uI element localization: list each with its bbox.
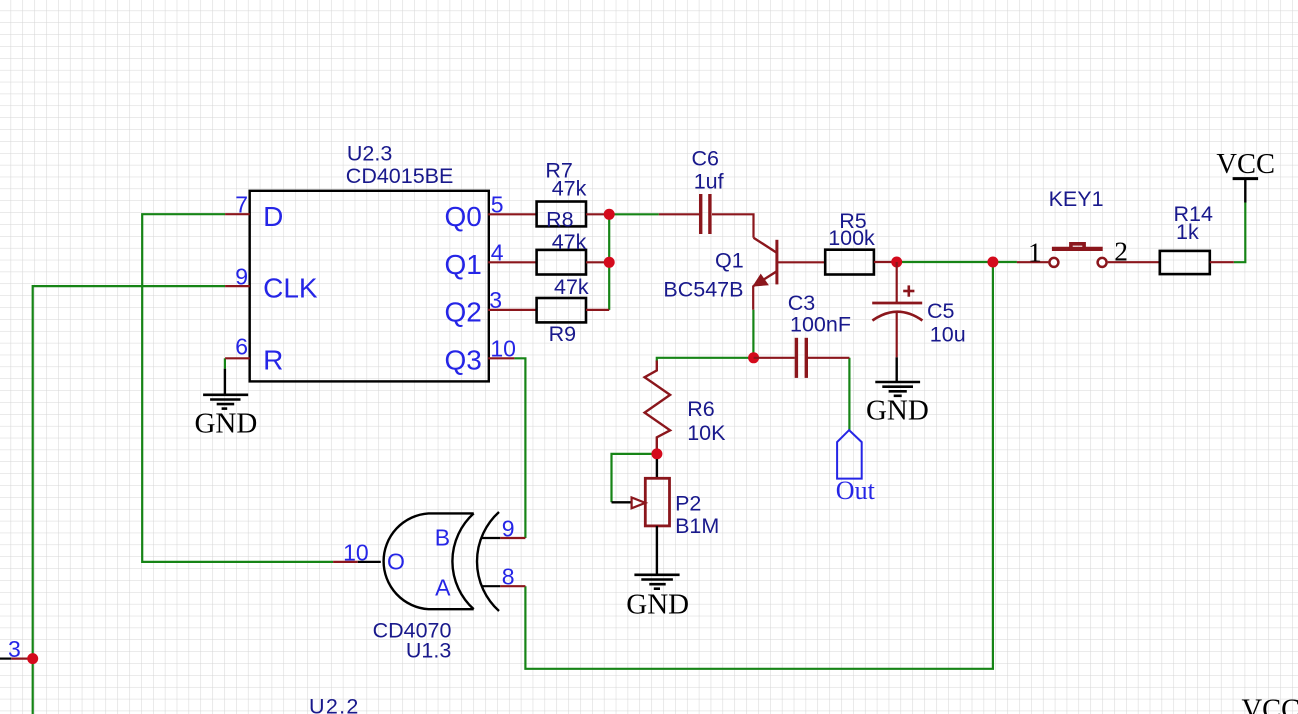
label R8 bbox=[546, 207, 574, 231]
label R14 bbox=[1174, 202, 1213, 226]
svg-text:4: 4 bbox=[491, 240, 504, 266]
pin name CLK bbox=[263, 273, 318, 304]
svg-text:47k: 47k bbox=[552, 230, 587, 254]
svg-text:1uf: 1uf bbox=[694, 169, 724, 193]
pin number 6 bbox=[235, 334, 248, 360]
pin 4 stub Q1 bbox=[488, 261, 536, 263]
label VCC text bbox=[1216, 149, 1275, 180]
XOR input pin 8 bbox=[482, 585, 526, 587]
pin number 7 bbox=[235, 192, 248, 218]
pin number 4 bbox=[491, 240, 504, 266]
pin name O bbox=[387, 549, 405, 575]
svg-text:GND: GND bbox=[194, 408, 257, 440]
resistor R14 box bbox=[1160, 251, 1210, 274]
svg-text:R8: R8 bbox=[546, 207, 574, 231]
junction node emitter-C3-R6 bbox=[748, 352, 759, 363]
svg-text:6: 6 bbox=[235, 334, 248, 360]
wire base row R5 to KEY1 bbox=[897, 261, 1017, 263]
XOR input pin 9 bbox=[482, 537, 526, 539]
svg-text:R9: R9 bbox=[549, 322, 576, 346]
svg-text:5: 5 bbox=[491, 192, 504, 218]
label 47k (R9) bbox=[554, 275, 589, 299]
wire VCC drop to R14 bbox=[1234, 203, 1246, 263]
svg-text:1k: 1k bbox=[1176, 220, 1199, 244]
svg-text:10: 10 bbox=[490, 336, 516, 362]
wire junction column R7-R9 bbox=[608, 214, 610, 310]
junction node feedback bbox=[987, 257, 998, 268]
label 1k bbox=[1176, 220, 1199, 244]
label CD4015BE bbox=[346, 164, 454, 188]
svg-text:R: R bbox=[263, 345, 283, 376]
svg-text:Q3: Q3 bbox=[445, 345, 482, 376]
junction node Q1 bbox=[604, 257, 615, 268]
pin number 1 (KEY1) bbox=[1028, 237, 1042, 268]
pin name Q3 bbox=[445, 345, 482, 376]
svg-text:D: D bbox=[263, 201, 283, 232]
pin name R bbox=[263, 345, 283, 376]
label GND3 text bbox=[626, 589, 689, 621]
pin 3 stub Q2 bbox=[488, 309, 536, 311]
wire Q0 junction to C6 bbox=[609, 213, 659, 215]
svg-text:U1.3: U1.3 bbox=[406, 639, 451, 663]
label Out text bbox=[836, 476, 876, 505]
svg-text:CLK: CLK bbox=[263, 273, 318, 304]
svg-text:3: 3 bbox=[489, 287, 502, 313]
wire feedback loop right bbox=[525, 262, 993, 669]
label 47k (R8) bbox=[552, 230, 587, 254]
pin name A bbox=[435, 575, 451, 601]
label 100nF bbox=[790, 313, 851, 337]
svg-text:8: 8 bbox=[502, 564, 515, 590]
svg-text:2: 2 bbox=[1114, 236, 1128, 267]
label VCC bottom text bbox=[1242, 695, 1298, 714]
svg-text:VCC: VCC bbox=[1242, 695, 1298, 714]
svg-text:U2.3: U2.3 bbox=[347, 142, 392, 166]
label BC547B bbox=[663, 277, 743, 301]
svg-text:P2: P2 bbox=[675, 491, 701, 515]
svg-text:BC547B: BC547B bbox=[663, 277, 743, 301]
svg-text:C3: C3 bbox=[788, 291, 816, 315]
svg-text:1: 1 bbox=[1028, 237, 1042, 268]
wire R5 right bbox=[874, 261, 897, 263]
svg-text:O: O bbox=[387, 549, 405, 575]
capacitor C5 polarized bbox=[872, 262, 922, 357]
svg-text:R6: R6 bbox=[687, 397, 715, 421]
label C5 bbox=[927, 299, 955, 323]
wire emitter node to R6 top bbox=[657, 358, 754, 362]
wire pin6 to GND bbox=[224, 358, 226, 368]
pin number 9 (XOR) bbox=[502, 516, 515, 542]
label U2.2 bbox=[309, 694, 360, 714]
label R7 bbox=[545, 158, 572, 182]
wire C3 to Out port bbox=[848, 358, 850, 430]
pin 5 stub Q0 bbox=[488, 213, 536, 215]
svg-text:Q1: Q1 bbox=[715, 249, 744, 273]
svg-text:VCC: VCC bbox=[1216, 149, 1275, 180]
pin number 3 bbox=[489, 287, 502, 313]
svg-text:7: 7 bbox=[235, 192, 248, 218]
svg-text:Q0: Q0 bbox=[445, 201, 482, 232]
pin 10 stub Q3 bbox=[488, 357, 514, 359]
XOR gate U1.3 body bbox=[384, 512, 499, 611]
ground GND1 under pin 6 bbox=[203, 369, 248, 409]
svg-text:10K: 10K bbox=[687, 421, 726, 445]
wire P2 wiper loop bbox=[612, 454, 652, 502]
label CD4070 bbox=[373, 619, 452, 643]
pin name Q2 bbox=[445, 296, 482, 327]
resistor R5 box bbox=[825, 250, 874, 275]
resistor R9 box bbox=[537, 298, 586, 322]
pin number 5 bbox=[491, 192, 504, 218]
label C6 bbox=[692, 147, 720, 171]
pin number 9 bbox=[235, 264, 248, 290]
pin 6 stub bbox=[225, 357, 250, 359]
label GND1 text bbox=[194, 408, 257, 440]
svg-text:C6: C6 bbox=[692, 147, 720, 171]
pin number 10 (XOR) bbox=[343, 539, 369, 565]
resistor R8 box bbox=[537, 250, 586, 275]
label 100k bbox=[828, 226, 875, 250]
label B1M bbox=[675, 514, 719, 538]
potentiometer P2 bbox=[612, 459, 670, 526]
svg-text:10: 10 bbox=[343, 539, 369, 565]
pin 3 of U2.2 bottom left bbox=[0, 657, 33, 659]
IC U2.3 body bbox=[250, 191, 489, 382]
junction node Q0 bbox=[604, 209, 615, 220]
svg-text:47k: 47k bbox=[554, 275, 589, 299]
svg-text:10u: 10u bbox=[930, 322, 966, 346]
power VCC symbol bbox=[1233, 179, 1259, 203]
junction node R5-C5 bbox=[891, 257, 902, 268]
wire R7 right bbox=[586, 213, 609, 215]
label 10K bbox=[687, 421, 726, 445]
label R9 bbox=[549, 322, 576, 346]
label Q1 bbox=[715, 249, 744, 273]
svg-text:U2.2: U2.2 bbox=[309, 694, 360, 714]
svg-text:100k: 100k bbox=[828, 226, 875, 250]
wire CLK-net vertical left bbox=[33, 286, 225, 714]
svg-text:100nF: 100nF bbox=[790, 313, 851, 337]
label 10u bbox=[930, 322, 966, 346]
label 1uf bbox=[694, 169, 724, 193]
port Out bbox=[837, 430, 862, 479]
svg-text:CD4015BE: CD4015BE bbox=[346, 164, 454, 188]
svg-text:Q1: Q1 bbox=[445, 249, 482, 280]
resistor R6 zigzag bbox=[645, 361, 671, 449]
ground GND3 under P2 bbox=[634, 526, 679, 589]
label GND2 text bbox=[866, 394, 929, 426]
junction node CLK-pin3 bbox=[27, 653, 38, 664]
pushbutton KEY1 bbox=[1017, 244, 1160, 267]
pin name Q1 bbox=[445, 249, 482, 280]
pin name D bbox=[263, 201, 283, 232]
capacitor C3 bbox=[754, 338, 850, 378]
svg-text:9: 9 bbox=[235, 264, 248, 290]
svg-text:47k: 47k bbox=[552, 177, 587, 201]
wire R8 right bbox=[586, 261, 609, 263]
pin number 10 bbox=[490, 336, 516, 362]
pin name Q0 bbox=[445, 201, 482, 232]
wire R9 right bbox=[586, 309, 609, 311]
label 47k (R7) bbox=[552, 177, 587, 201]
label KEY1 bbox=[1049, 187, 1104, 211]
svg-text:B: B bbox=[435, 525, 450, 551]
svg-text:Out: Out bbox=[836, 476, 876, 505]
label P2 bbox=[675, 491, 701, 515]
pin 9 stub bbox=[225, 285, 250, 287]
transistor Q1 bbox=[752, 238, 825, 310]
label U1.3 bbox=[406, 639, 451, 663]
svg-text:9: 9 bbox=[502, 516, 515, 542]
label U2.3 bbox=[347, 142, 392, 166]
capacitor C6 bbox=[659, 194, 754, 238]
label C3 bbox=[788, 291, 816, 315]
resistor R7 box bbox=[537, 202, 586, 227]
svg-text:A: A bbox=[435, 575, 451, 601]
wire D-net: XOR output to D pin bbox=[142, 214, 333, 562]
label R6 bbox=[687, 397, 715, 421]
pin name B bbox=[435, 525, 450, 551]
pin number 8 (XOR) bbox=[502, 564, 515, 590]
ground GND2 under C5 bbox=[875, 357, 920, 396]
wire R14 right to VCC corner bbox=[1210, 261, 1234, 263]
XOR output pin 10 bbox=[333, 561, 381, 563]
pin number 2 (KEY1) bbox=[1114, 236, 1128, 267]
svg-text:Q2: Q2 bbox=[445, 296, 482, 327]
label R5 bbox=[839, 209, 867, 233]
pin 7 stub bbox=[225, 213, 250, 215]
pin number 3 (U2.2) bbox=[8, 636, 21, 662]
svg-text:B1M: B1M bbox=[675, 514, 719, 538]
svg-text:GND: GND bbox=[626, 589, 689, 621]
wire Q3 to XOR B input bbox=[514, 358, 525, 538]
svg-text:C5: C5 bbox=[927, 299, 955, 323]
svg-text:KEY1: KEY1 bbox=[1049, 187, 1104, 211]
svg-text:3: 3 bbox=[8, 636, 21, 662]
svg-text:GND: GND bbox=[866, 394, 929, 426]
wire emitter down bbox=[752, 310, 754, 358]
junction node R6-P2 bbox=[651, 448, 662, 459]
